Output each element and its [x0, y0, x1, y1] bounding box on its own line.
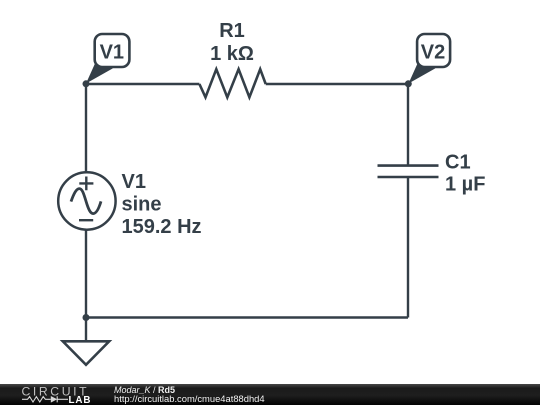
capacitor C1	[378, 166, 439, 177]
node flag V1	[86, 34, 129, 84]
svg-text:V2: V2	[421, 42, 445, 64]
wire node V2 down to capacitor	[407, 84, 409, 166]
junction node V1	[83, 80, 90, 87]
svg-text:V1: V1	[122, 171, 146, 193]
svg-text:1 kΩ: 1 kΩ	[210, 43, 254, 65]
resistor R1	[199, 69, 265, 97]
junction ground node	[83, 314, 90, 321]
wire resistor to node V2	[266, 83, 408, 85]
node flag V2	[409, 34, 451, 84]
voltage source V1	[58, 172, 115, 229]
svg-text:LAB: LAB	[69, 395, 92, 405]
ground	[63, 318, 109, 365]
svg-text:V1: V1	[100, 42, 124, 64]
svg-text:1 µF: 1 µF	[445, 174, 485, 196]
wire node V1 down to source	[85, 84, 87, 172]
wire capacitor to bottom net	[407, 177, 409, 318]
junction node V2	[405, 80, 412, 87]
svg-text:159.2 Hz: 159.2 Hz	[122, 216, 202, 238]
svg-text:sine: sine	[122, 194, 162, 216]
svg-text:C1: C1	[445, 152, 471, 174]
svg-text:R1: R1	[219, 20, 245, 42]
wire bottom net	[86, 316, 408, 318]
wire source to ground junction	[85, 230, 87, 317]
wire top-left from node V1 to resistor	[86, 83, 199, 85]
